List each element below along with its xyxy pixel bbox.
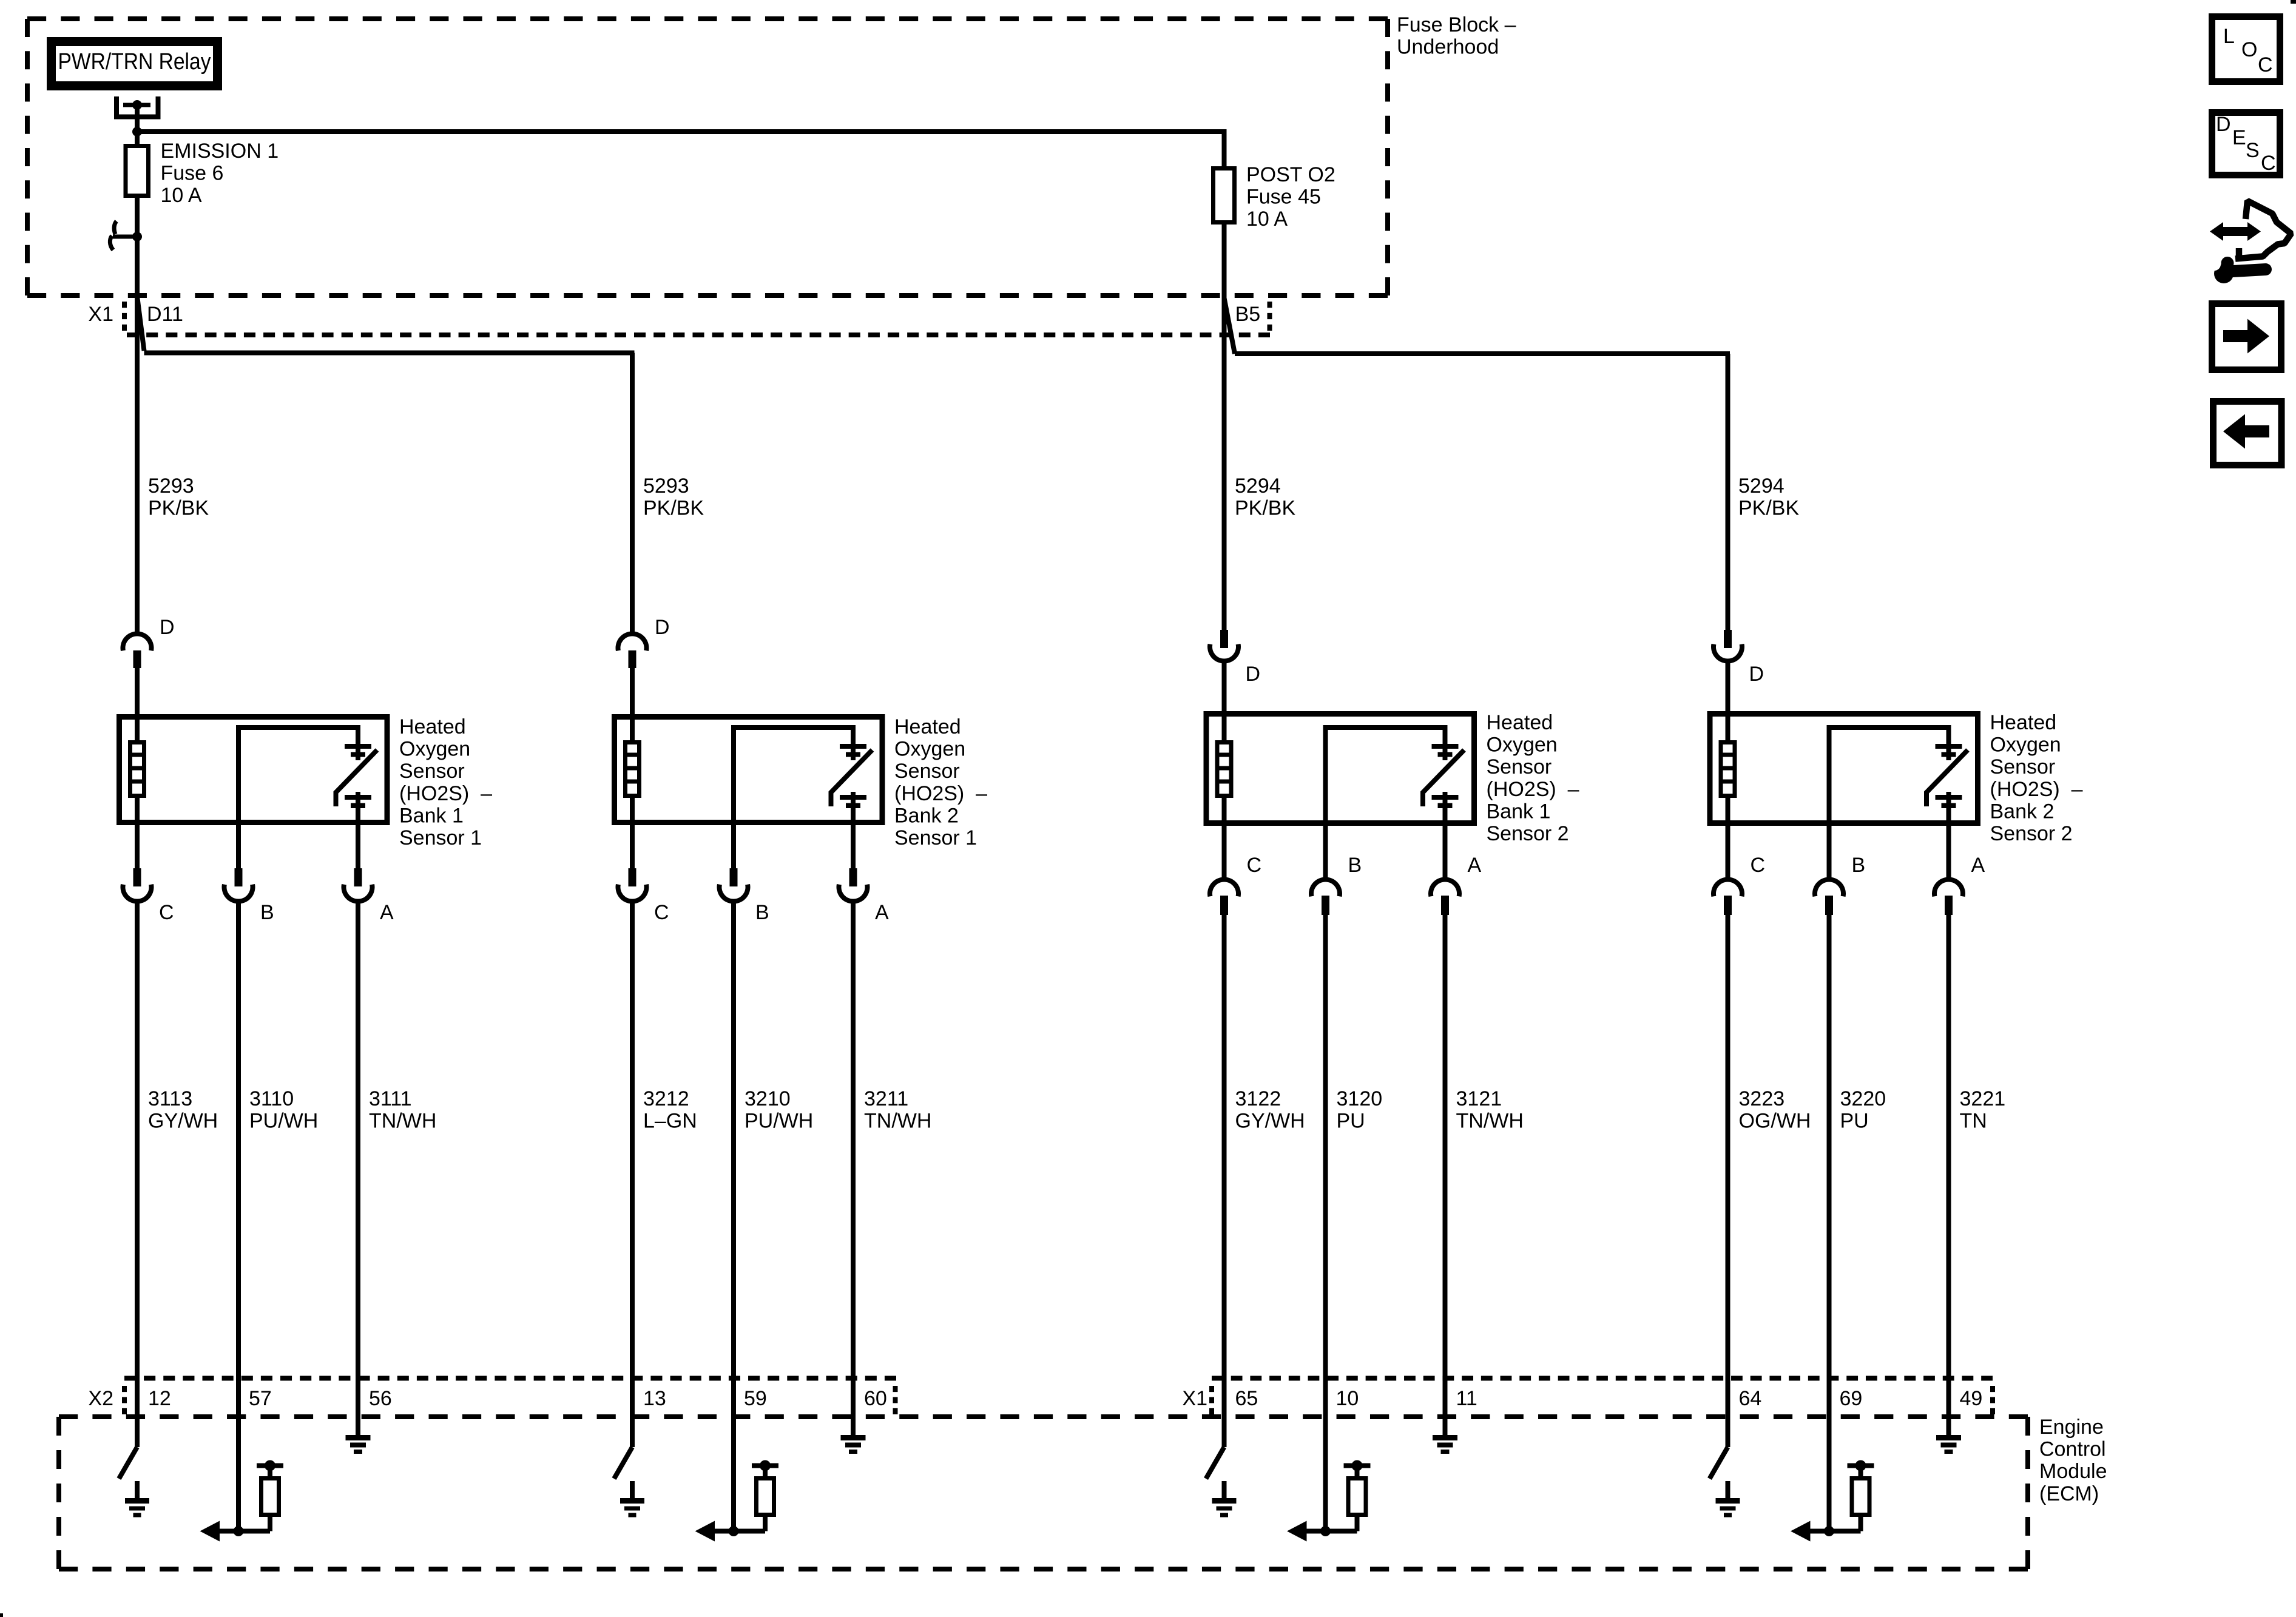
- wire splice diagonal at D11: [137, 296, 144, 351]
- wire: pin 57 to internal node: [236, 1420, 241, 1531]
- wire: pin D into sensor box (HO2S B1S1): [135, 666, 140, 741]
- svg-text:56: 56: [369, 1387, 392, 1410]
- connector pin B female terminal (HO2S B2S1): [720, 885, 748, 902]
- svg-text:PK/BK: PK/BK: [148, 497, 209, 520]
- svg-text:C: C: [1247, 854, 1262, 877]
- svg-text:TN: TN: [1960, 1110, 1987, 1133]
- svg-text:TN/WH: TN/WH: [864, 1110, 931, 1133]
- svg-text:3111: 3111: [369, 1087, 412, 1110]
- wire: relay contact to junction: [135, 105, 140, 132]
- svg-text:59: 59: [744, 1387, 767, 1410]
- relay coil switch symbol: [114, 221, 116, 235]
- svg-text:B: B: [755, 901, 769, 924]
- connector pin A female terminal (HO2S B1S2): [1431, 879, 1459, 896]
- svg-text:PK/BK: PK/BK: [1235, 497, 1295, 520]
- svg-text:3120: 3120: [1337, 1087, 1383, 1110]
- sensor cell plates (HO2S B1S2): [1443, 725, 1448, 760]
- connector pin A female terminal (HO2S B2S1): [839, 885, 868, 902]
- svg-text:12: 12: [148, 1387, 171, 1410]
- wire: pin A to ECM (HO2S B2S1): [851, 900, 856, 1420]
- wire: pin 69 to internal node: [1827, 1420, 1832, 1531]
- svg-text:TN/WH: TN/WH: [1456, 1110, 1524, 1133]
- svg-text:Sensor: Sensor: [399, 760, 465, 783]
- connector pin D male terminal (HO2S B1S2): [1220, 630, 1228, 648]
- ECM bias resistor pin 10: [1355, 1515, 1360, 1531]
- svg-text:B5: B5: [1235, 303, 1261, 326]
- svg-text:X2: X2: [88, 1387, 113, 1410]
- connector pin B female terminal (HO2S B2S2): [1815, 879, 1843, 896]
- svg-text:L: L: [2223, 25, 2235, 48]
- svg-text:Sensor: Sensor: [894, 760, 960, 783]
- svg-text:3221: 3221: [1960, 1087, 2006, 1110]
- sensor variable diagonal (HO2S B1S2): [1423, 750, 1464, 806]
- svg-text:(ECM): (ECM): [2039, 1482, 2099, 1505]
- svg-text:D: D: [1749, 663, 1764, 686]
- connector pin B male terminal (HO2S B1S1): [235, 868, 243, 886]
- svg-text:Oxygen: Oxygen: [399, 738, 470, 761]
- ground symbol at pin 56: [356, 1420, 360, 1436]
- svg-text:PK/BK: PK/BK: [643, 497, 704, 520]
- svg-text:Oxygen: Oxygen: [1487, 734, 1558, 757]
- internal wire: pin B riser (HO2S B2S2): [1829, 727, 1949, 880]
- wire: pin D into sensor box (HO2S B2S2): [1726, 661, 1730, 741]
- wire: pin A to ECM (HO2S B1S2): [1443, 914, 1448, 1420]
- connector pin B male terminal (HO2S B2S1): [730, 868, 738, 886]
- fuse block connector dashed strip: [127, 333, 1270, 337]
- wire: pin C to ECM (HO2S B2S1): [630, 900, 635, 1420]
- svg-text:POST O2: POST O2: [1246, 163, 1335, 186]
- svg-text:(HO2S) –: (HO2S) –: [1990, 778, 2083, 801]
- svg-text:A: A: [1468, 854, 1482, 877]
- heated oxygen sensor box (HO2S B2S1): [615, 717, 883, 823]
- icon: LOC box: [2212, 17, 2280, 82]
- svg-text:E: E: [2232, 126, 2246, 149]
- junction node: [132, 127, 142, 137]
- ECM internal junction pin 57: [234, 1526, 244, 1536]
- svg-text:PU: PU: [1337, 1110, 1365, 1133]
- svg-text:11: 11: [1456, 1387, 1477, 1410]
- svg-text:GY/WH: GY/WH: [1235, 1110, 1305, 1133]
- ECM connector dashed strip right: [1212, 1376, 1993, 1381]
- svg-text:PK/BK: PK/BK: [1738, 497, 1799, 520]
- fuse block - underhood dashed box: [27, 16, 1388, 21]
- svg-text:C: C: [654, 901, 669, 924]
- svg-text:5294: 5294: [1235, 474, 1281, 498]
- ECM ground switch at pin 64: [1710, 1420, 1728, 1479]
- connector pin D female terminal (HO2S B1S1): [123, 633, 152, 650]
- svg-text:3210: 3210: [745, 1087, 791, 1110]
- wire: cell to pin A (HO2S B2S1): [851, 792, 856, 868]
- svg-text:C: C: [1751, 854, 1766, 877]
- svg-text:Engine: Engine: [2039, 1416, 2104, 1439]
- wire: pin A to ECM (HO2S B2S2): [1947, 914, 1951, 1420]
- svg-text:Bank 1: Bank 1: [399, 804, 464, 827]
- svg-text:A: A: [1971, 854, 1985, 877]
- svg-text:D: D: [160, 616, 175, 639]
- sensor variable diagonal (HO2S B2S1): [831, 750, 873, 806]
- connector pin C female terminal (HO2S B2S1): [618, 885, 646, 902]
- svg-text:D: D: [1246, 663, 1261, 686]
- svg-text:Oxygen: Oxygen: [894, 738, 965, 761]
- svg-text:PU/WH: PU/WH: [745, 1110, 813, 1133]
- internal wire: pin B riser (HO2S B1S1): [238, 727, 358, 868]
- svg-text:PU/WH: PU/WH: [249, 1110, 318, 1133]
- connector pin D male terminal (HO2S B2S2): [1724, 630, 1732, 648]
- connector pin D male terminal (HO2S B2S1): [629, 650, 636, 668]
- svg-text:A: A: [875, 901, 889, 924]
- svg-text:3211: 3211: [864, 1087, 908, 1110]
- internal wire: pin B riser (HO2S B2S1): [734, 727, 853, 868]
- svg-text:10: 10: [1336, 1387, 1359, 1410]
- svg-text:C: C: [2258, 53, 2273, 76]
- svg-text:Heated: Heated: [1487, 711, 1553, 734]
- wire: bus from junction to POST O2 fuse: [137, 132, 1224, 166]
- svg-text:5293: 5293: [643, 474, 689, 498]
- wire: pin D into sensor box (HO2S B1S2): [1222, 661, 1227, 741]
- svg-text:X1: X1: [88, 303, 113, 326]
- sensor cell plates (HO2S B1S1): [356, 725, 360, 760]
- heated oxygen sensor box (HO2S B1S1): [120, 717, 388, 823]
- wire: heater to pin C (HO2S B2S1): [630, 795, 635, 868]
- ECM bias resistor pin 59: [763, 1515, 768, 1531]
- wire: junction down to EMISSION 1 fuse: [135, 132, 140, 144]
- svg-text:3220: 3220: [1840, 1087, 1886, 1110]
- icon: connector outline: [2235, 201, 2291, 259]
- wire 5293 branch drop: [630, 353, 635, 635]
- wire: pin 10 to internal node: [1323, 1420, 1328, 1531]
- sensor variable diagonal (HO2S B1S1): [336, 750, 377, 806]
- ECM internal reference node pin 10: [1344, 1463, 1371, 1468]
- svg-text:10 A: 10 A: [1246, 208, 1288, 231]
- svg-text:3110: 3110: [249, 1087, 294, 1110]
- wire: pin C to ECM (HO2S B2S2): [1726, 914, 1730, 1420]
- svg-text:Heated: Heated: [894, 715, 961, 738]
- ground symbol at pin 49: [1947, 1420, 1951, 1436]
- svg-text:PWR/TRN Relay: PWR/TRN Relay: [58, 49, 211, 75]
- svg-text:3212: 3212: [643, 1087, 689, 1110]
- svg-text:O: O: [2241, 38, 2257, 61]
- ECM internal junction pin 59: [729, 1526, 739, 1536]
- icon: forward arrow box: [2212, 304, 2281, 370]
- connector pin A female terminal (HO2S B1S1): [344, 885, 373, 902]
- relay contact (PWR/TRN relay output): [114, 96, 161, 119]
- svg-text:Module: Module: [2039, 1460, 2107, 1483]
- svg-text:57: 57: [249, 1387, 272, 1410]
- svg-text:3113: 3113: [148, 1087, 192, 1110]
- wire: cell to pin A (HO2S B1S1): [356, 792, 360, 868]
- svg-text:65: 65: [1235, 1387, 1258, 1410]
- wire: pin B to ECM (HO2S B2S1): [731, 900, 736, 1420]
- connector pin B female terminal (HO2S B1S2): [1311, 879, 1340, 896]
- ECM bias resistor pin 57: [268, 1515, 272, 1531]
- svg-text:(HO2S) –: (HO2S) –: [399, 782, 492, 805]
- svg-text:EMISSION 1: EMISSION 1: [161, 140, 279, 163]
- sensor cell plates (HO2S B2S1): [851, 725, 856, 760]
- ground symbol under switch pin 64: [1726, 1481, 1730, 1499]
- connector pin A male terminal (HO2S B1S2): [1441, 896, 1449, 915]
- sensor variable diagonal (HO2S B2S2): [1926, 750, 1968, 806]
- svg-text:Sensor: Sensor: [1990, 755, 2056, 778]
- connector pin C female terminal (HO2S B2S2): [1714, 879, 1742, 896]
- svg-text:Heated: Heated: [399, 715, 466, 738]
- connector pin D female terminal (HO2S B2S1): [618, 633, 646, 650]
- svg-text:L–GN: L–GN: [643, 1110, 697, 1133]
- wire: pin A to ECM (HO2S B1S1): [356, 900, 360, 1420]
- ECM internal junction pin 10: [1320, 1526, 1331, 1536]
- ECM bias resistor pin 69: [1859, 1515, 1863, 1531]
- svg-text:Fuse 6: Fuse 6: [161, 162, 224, 185]
- internal wire: pin B riser (HO2S B1S2): [1326, 727, 1445, 880]
- sensor cell plates (HO2S B2S2): [1947, 725, 1951, 760]
- connector pin C female terminal (HO2S B1S2): [1210, 879, 1238, 896]
- svg-text:PU: PU: [1840, 1110, 1869, 1133]
- connector pin C male terminal (HO2S B1S2): [1220, 896, 1228, 915]
- icon: DESC box: [2212, 113, 2280, 175]
- svg-text:3223: 3223: [1739, 1087, 1785, 1110]
- connector separator left: [122, 302, 127, 331]
- connector pin A male terminal (HO2S B2S2): [1945, 896, 1953, 915]
- svg-text:13: 13: [643, 1387, 666, 1410]
- fuse F6 EMISSION 1: [126, 146, 149, 196]
- icon: connector tools double arrow: [2221, 227, 2250, 236]
- ECM internal reference node pin 69: [1848, 1463, 1874, 1468]
- svg-text:69: 69: [1840, 1387, 1863, 1410]
- ECM ground switch at pin 13: [614, 1420, 632, 1479]
- svg-text:A: A: [380, 901, 394, 924]
- wire: pin C to ECM (HO2S B1S2): [1222, 914, 1227, 1420]
- svg-text:49: 49: [1960, 1387, 1983, 1410]
- ECM ground switch at pin 65: [1206, 1420, 1224, 1479]
- connector pin D female terminal (HO2S B1S2): [1210, 644, 1238, 661]
- svg-text:3122: 3122: [1235, 1087, 1281, 1110]
- svg-text:Fuse 45: Fuse 45: [1246, 186, 1321, 209]
- wire 5293 main drop (circuit 5293): [135, 237, 140, 634]
- svg-text:S: S: [2246, 139, 2260, 162]
- svg-text:10 A: 10 A: [161, 184, 202, 207]
- wire: pin B to ECM (HO2S B1S1): [236, 900, 241, 1420]
- wire: fuse 6 to relay-coil switch: [135, 198, 140, 237]
- svg-text:OG/WH: OG/WH: [1739, 1110, 1811, 1133]
- connector pin A female terminal (HO2S B2S2): [1934, 879, 1963, 896]
- svg-text:(HO2S) –: (HO2S) –: [1487, 778, 1579, 801]
- ground symbol under switch pin 12: [135, 1481, 140, 1499]
- heated oxygen sensor box (HO2S B2S2): [1710, 714, 1978, 823]
- ground symbol under switch pin 13: [630, 1481, 635, 1499]
- connector pin D male terminal (HO2S B1S1): [133, 650, 141, 668]
- svg-text:B: B: [1348, 854, 1362, 877]
- heater element (HO2S B2S2): [1721, 743, 1735, 796]
- wire: heater to pin C (HO2S B1S2): [1222, 795, 1227, 880]
- svg-text:Bank 1: Bank 1: [1487, 800, 1551, 823]
- ECM internal reference node pin 57: [257, 1463, 283, 1468]
- wire 5293 branch bus to bank2 sensor1: [144, 351, 635, 356]
- svg-text:TN/WH: TN/WH: [369, 1110, 436, 1133]
- connector pin C male terminal (HO2S B1S1): [133, 868, 141, 886]
- ECM internal junction pin 69: [1824, 1526, 1834, 1536]
- wire: pin 59 to internal node: [731, 1420, 736, 1531]
- wire 5294 main drop (circuit 5294): [1222, 221, 1227, 630]
- ECM internal arrow (signal to ECM) pin 57: [220, 1529, 270, 1534]
- heater element (HO2S B1S2): [1217, 743, 1231, 796]
- svg-text:D: D: [655, 616, 670, 639]
- svg-text:Underhood: Underhood: [1397, 36, 1499, 59]
- connector separator right: [1268, 302, 1272, 331]
- svg-text:C: C: [2261, 152, 2276, 175]
- connector pin C male terminal (HO2S B2S2): [1724, 896, 1732, 915]
- svg-text:Sensor 2: Sensor 2: [1487, 822, 1569, 845]
- wire: pin B to ECM (HO2S B1S2): [1323, 914, 1328, 1420]
- ECM internal arrow (signal to ECM) pin 69: [1811, 1529, 1861, 1534]
- svg-text:60: 60: [864, 1387, 887, 1410]
- connector pin A male terminal (HO2S B1S1): [354, 868, 362, 886]
- ECM connector separator X2: [122, 1386, 127, 1414]
- ground symbol under switch pin 65: [1222, 1481, 1227, 1499]
- svg-text:Bank 2: Bank 2: [1990, 800, 2055, 823]
- wire: pin D into sensor box (HO2S B2S1): [630, 666, 635, 741]
- wire splice diagonal at B5: [1224, 298, 1235, 354]
- connector pin B male terminal (HO2S B2S2): [1825, 896, 1833, 915]
- connector pin B female terminal (HO2S B1S1): [225, 885, 253, 902]
- wire 5294 branch bus to bank2 sensor2: [1235, 351, 1730, 356]
- svg-text:B: B: [1852, 854, 1866, 877]
- wire: cell to pin A (HO2S B2S2): [1947, 792, 1951, 880]
- ECM ground switch at pin 12: [119, 1420, 137, 1479]
- svg-text:X1: X1: [1182, 1387, 1207, 1410]
- svg-text:D11: D11: [147, 303, 183, 326]
- svg-text:Fuse Block –: Fuse Block –: [1397, 13, 1516, 36]
- ECM internal reference node pin 59: [752, 1463, 778, 1468]
- svg-text:5293: 5293: [148, 474, 194, 498]
- ground symbol at pin 60: [851, 1420, 856, 1436]
- wire: cell to pin A (HO2S B1S2): [1443, 792, 1448, 880]
- ECM internal arrow (signal to ECM) pin 10: [1307, 1529, 1357, 1534]
- svg-text:64: 64: [1739, 1387, 1762, 1410]
- connector pin B male terminal (HO2S B1S2): [1322, 896, 1329, 915]
- heated oxygen sensor box (HO2S B1S2): [1206, 714, 1474, 823]
- ECM connector separator after pin 60: [893, 1386, 898, 1414]
- icon: wrench: [2233, 269, 2266, 271]
- svg-text:Sensor: Sensor: [1487, 755, 1552, 778]
- ground symbol at pin 11: [1443, 1420, 1448, 1436]
- wire: heater to pin C (HO2S B1S1): [135, 795, 140, 868]
- connector pin C male terminal (HO2S B2S1): [629, 868, 636, 886]
- connector pin C female terminal (HO2S B1S1): [123, 885, 152, 902]
- wire: heater to pin C (HO2S B2S2): [1726, 795, 1730, 880]
- svg-text:Sensor 2: Sensor 2: [1990, 822, 2073, 845]
- page corner mark top right: [2291, 0, 2296, 4]
- svg-text:Sensor 1: Sensor 1: [399, 826, 482, 849]
- wire: pin B to ECM (HO2S B2S2): [1827, 914, 1832, 1420]
- ECM connector separator after pin 49: [1990, 1386, 1995, 1414]
- PWR/TRN Relay label box: [52, 42, 218, 86]
- wire 5294 branch drop: [1726, 354, 1730, 630]
- svg-text:3121: 3121: [1456, 1087, 1502, 1110]
- connector pin A male terminal (HO2S B2S1): [849, 868, 857, 886]
- svg-text:(HO2S) –: (HO2S) –: [894, 782, 987, 805]
- connector pin D female terminal (HO2S B2S2): [1714, 644, 1742, 661]
- svg-text:Oxygen: Oxygen: [1990, 734, 2061, 757]
- heater element (HO2S B1S1): [130, 743, 144, 796]
- svg-text:Bank 2: Bank 2: [894, 804, 959, 827]
- wire: pin C to ECM (HO2S B1S1): [135, 900, 140, 1420]
- ECM connector dashed strip left: [124, 1376, 896, 1381]
- svg-text:Sensor 1: Sensor 1: [894, 826, 977, 849]
- svg-text:Control: Control: [2039, 1438, 2106, 1461]
- heater element (HO2S B2S1): [626, 743, 640, 796]
- svg-text:C: C: [159, 901, 174, 924]
- svg-text:B: B: [260, 901, 274, 924]
- svg-text:D: D: [2216, 113, 2231, 136]
- ECM connector separator X1: [1209, 1386, 1214, 1414]
- fuse F45 POST O2: [1214, 169, 1235, 223]
- ECM internal arrow (signal to ECM) pin 59: [715, 1529, 765, 1534]
- page corner mark bottom left: [0, 1613, 3, 1617]
- icon: back arrow box: [2213, 402, 2282, 465]
- svg-text:5294: 5294: [1738, 474, 1784, 498]
- svg-text:Heated: Heated: [1990, 711, 2057, 734]
- engine control module dashed box: [59, 1414, 2028, 1419]
- svg-text:GY/WH: GY/WH: [148, 1110, 218, 1133]
